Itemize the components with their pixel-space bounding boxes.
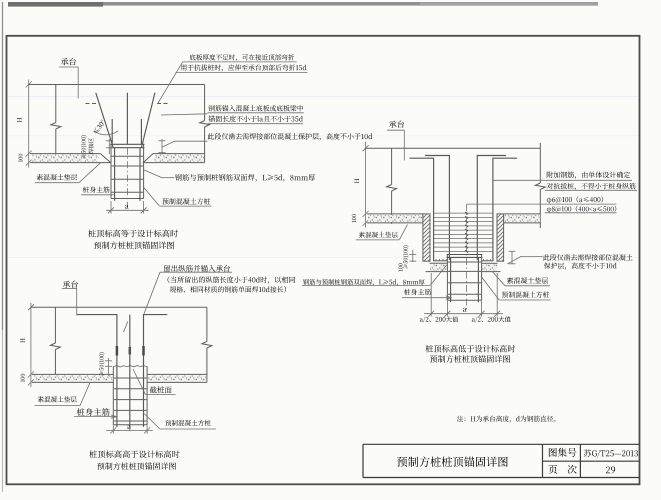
weld zone mini dimension (detail 2) (409, 250, 416, 262)
annotation: 此段仅凿去需焊接部位混凝土 (detail 2) (543, 254, 632, 260)
pile stirrup rungs (detail 3) (114, 378, 147, 421)
pile main bars (detail 2) (451, 257, 479, 302)
rotated dim ≥50(100) (detail 1) (81, 135, 87, 158)
dimension line vertical (detail 3) (28, 303, 34, 387)
annotation: 锚固长度不小于la且不小于35d (208, 115, 302, 121)
precast pile outline (detail 1) (111, 144, 144, 198)
cut surface 截桩面 jagged line (detail 3) (113, 366, 146, 367)
pile cap top line (detail 1) (29, 84, 205, 86)
leader diagonal from top annotation to bar (detail 1) (158, 62, 183, 104)
dimension a below pile (detail 3) (106, 425, 153, 433)
annotation: 附加钢筋，由单体设计确定 (547, 172, 630, 179)
pile cap top line (detail 3) (31, 306, 207, 308)
cushion layer left (detail 1) (32, 155, 99, 162)
dashed bend level right (detail 1) (157, 103, 169, 105)
cushion layer right (detail 3) (148, 375, 206, 381)
承台 label leader (detail 2) (387, 130, 405, 160)
pile top plate band (detail 1) (110, 144, 144, 147)
rotated label 焊接区 (detail 1) (88, 138, 93, 154)
dim label a (detail 1) (125, 205, 129, 209)
dim label H rotated (detail 3) (20, 338, 24, 343)
stirrups of added cage (detail 2) (434, 213, 493, 251)
underline annotation line1 (detail 1) (183, 61, 297, 63)
dim label H rotated (detail 2) (355, 179, 359, 184)
added bar outer-right with hook (detail 2) (493, 158, 517, 261)
section right boundary with break (detail 3) (202, 307, 212, 382)
承台 label leader (detail 1) (59, 67, 79, 99)
scan artifact: left edge line (2, 2, 4, 330)
leader + underline 预制混凝土方桩 (detail 1) (144, 188, 212, 207)
underline 钢筋锚入 line (detail 1) (208, 112, 304, 114)
anchor bar stub right (detail 1) (140, 119, 142, 144)
caption line 2 (detail 3) (97, 462, 176, 469)
label: 预制混凝土方桩 (detail 1) (162, 198, 210, 205)
leader + underline 桩身主筋 (detail 2) (402, 296, 452, 300)
angle label ≤30° (detail 1) (93, 119, 106, 134)
label: 截桩面 (detail 3) (150, 386, 172, 393)
label: 素混凝土垫层 (detail 1) (37, 174, 78, 180)
title block: 图集号 (549, 448, 577, 457)
title block: 苏G/T25—2013 (584, 449, 638, 457)
underline φ8@100 (detail 2) (545, 212, 617, 214)
precast pile outline (detail 2) (447, 255, 481, 301)
anchor bar centre vertical (detail 1) (126, 93, 128, 144)
stirrup hook ticks on centreline (detail 2) (465, 212, 468, 253)
leader + underline 素混凝土垫层 lower (detail 2) (493, 272, 551, 286)
dim label H rotated (detail 1) (17, 118, 21, 123)
leader + underline 素混凝土垫层 upper (detail 2) (356, 225, 408, 240)
note: 注 H为承台高度 d为钢筋直径 (457, 416, 555, 423)
pile cap left edge with break (detail 1) (51, 85, 61, 154)
pile cap top line (detail 2) (366, 147, 541, 149)
leader + underline 预制混凝土方桩 (detail 3) (144, 414, 216, 430)
annotation: 此段仅凿去需焊接部位混凝土保护层，高度不小于10d (208, 133, 373, 140)
weld splice thickening (detail 3) (117, 346, 144, 356)
pile centreline (detail 2) (466, 204, 468, 310)
underline 桩身主筋 (detail 1) (81, 194, 114, 196)
title block: 29 (606, 467, 615, 474)
label: 素混凝土垫层 upper (detail 2) (359, 232, 398, 238)
annotation: φ8@100(400<a≤500) (547, 206, 616, 213)
10d chip-off dimension marker (detail 2) (509, 251, 516, 263)
dimension chain below pile (detail 2) (424, 273, 503, 317)
scan artifact: faint blue streaks (7, 95, 639, 98)
dim label 100 rotated (detail 1) (18, 154, 22, 162)
section right boundary with break (detail 2) (535, 143, 545, 228)
annotation: 留出纵筋并锚入承台 (164, 265, 230, 272)
caption line 2 (detail 2) (430, 355, 510, 363)
cushion layer left (detail 2) (368, 215, 423, 222)
scan artifact: top edge dark band (8, 2, 598, 6)
leader + underline 素混凝土垫层 (detail 3) (35, 383, 91, 406)
10d chip-off dimension marker (detail 1) (159, 139, 166, 154)
weld zone mini dimension (detail 1) (106, 139, 113, 154)
dim label 100 rotated (detail 3) (21, 374, 25, 382)
added bar outer-left with hook (detail 2) (409, 158, 433, 261)
underline annotation line2 (detail 1) (176, 71, 308, 73)
annotation: 钢筋锚入混凝土底板或底板梁中 (208, 105, 303, 111)
caption line 2 (detail 1) (94, 241, 174, 249)
left-out bar left with hook (detail 3) (77, 315, 117, 427)
title block: 预制方桩桩顶锚固详图 (397, 456, 508, 467)
precast pile outline (detail 3) (113, 366, 147, 425)
dim label 100 rotated (detail 2) (352, 214, 356, 222)
leader to 此段 annotation (detail 1) (162, 141, 207, 147)
pile stirrup rungs (detail 2) (448, 262, 481, 294)
caption line 1 (detail 1) (88, 230, 178, 238)
annotation: φ6@100(a≤400) (547, 196, 603, 203)
label: 承台 (detail 2) (389, 120, 404, 127)
anchor bar stub left (detail 1) (111, 119, 113, 144)
label: 桩身主筋 (detail 3) (77, 408, 110, 416)
pile main bars (detail 1) (115, 148, 140, 201)
leader + underline 预制混凝土方桩 (detail 2) (481, 276, 551, 300)
label: 预制混凝土方桩 (detail 2) (502, 291, 550, 297)
pile centreline tail (detail 3) (129, 427, 131, 431)
leader arrow to anchorage text (detail 1) (161, 114, 208, 115)
label: 桩身主筋 (detail 2) (404, 289, 431, 295)
rotated dim ≥50(100) (detail 2) (403, 245, 409, 268)
annotation: 钢筋与预制桩钢筋双面焊 L≥5d 8mm厚 (detail 2) (303, 279, 425, 286)
caption line 1 (detail 2) (426, 345, 516, 353)
annotation: 底板厚度不足时，可在接近顶部弯折 (190, 54, 295, 61)
added bar inner-left with hook (detail 2) (425, 156, 449, 261)
dim label a/2 200大值 right (detail 2) (472, 316, 511, 322)
underline 对抗拔桩 annotation (detail 2) (545, 189, 637, 191)
annotation: 对抗拔桩，不得小于桩身纵筋 (547, 183, 636, 190)
dimension line vertical (detail 1) (26, 80, 32, 168)
pile cap left edge with break (detail 3) (50, 307, 60, 374)
dim label a (detail 2) (463, 308, 467, 312)
leader + underline 留出纵筋并锚入承台 (detail 3) (144, 272, 232, 314)
underline 锚固长度 line (detail 1) (208, 123, 304, 125)
annotation: 规格、相同材质的钢筋单面焊10d接长） (170, 286, 286, 292)
label: 素混凝土垫层 lower (detail 2) (507, 277, 548, 283)
pit floor cushion left (detail 2) (430, 264, 447, 271)
centreline slash mark (detail 3) (124, 322, 128, 333)
label: 承台 (detail 3) (63, 280, 78, 287)
annotation: 钢筋与预制桩钢筋双面焊 L≥5d 8mm厚 (detail 1) (175, 174, 315, 182)
pile stirrup rungs (detail 1) (112, 156, 143, 192)
left-out bar right with hook (detail 3) (144, 315, 168, 427)
dimension line vertical (detail 2) (363, 142, 369, 228)
added bar inner-right with hook (detail 2) (477, 156, 506, 261)
pile top plate band (detail 2) (447, 255, 483, 258)
rotated dim 100 pit (detail 2) (398, 263, 402, 271)
leader to 此段 annotation (detail 2) (508, 256, 543, 263)
annotation: 保护层，高度不小于10d (detail 2) (544, 262, 617, 269)
leader + underline 钢筋与预制桩钢筋双面焊 (detail 2) (302, 265, 447, 286)
annotation: 用于抗拔桩时，应伸至承台顶部后弯折15d (181, 64, 307, 71)
label: 素混凝土垫层 (detail 3) (38, 396, 77, 402)
caption line 1 (detail 3) (89, 450, 179, 458)
承台 label leader (detail 3) (62, 288, 77, 315)
pile centreline (detail 1) (126, 148, 128, 207)
label: 预制混凝土方桩 (detail 3) (165, 420, 211, 426)
section right boundary line (detail 1) (200, 85, 210, 163)
label: 承台 (detail 1) (61, 58, 76, 65)
dim label a/2 200大值 left (detail 2) (420, 316, 458, 322)
dashed bend level left (detail 1) (86, 103, 100, 105)
title block outline (363, 444, 640, 477)
cushion layer left (detail 3) (34, 375, 112, 381)
title block: 页 次 (548, 465, 576, 474)
pit floor cushion right (detail 2) (482, 264, 497, 271)
pile cap left edge with break (detail 2) (387, 148, 397, 224)
pit wall right hatched (detail 2) (493, 207, 508, 274)
underline 桩身主筋 (detail 3) (74, 415, 116, 418)
annotation: （当所留出的纵筋长度小于40d时，以相同 (168, 276, 295, 283)
cushion layer right (detail 2) (504, 215, 540, 222)
left-out bar centre (detail 3) (129, 315, 131, 427)
cushion layer right (detail 1) (155, 155, 205, 162)
label: 桩身主筋 (detail 1) (83, 186, 110, 192)
leader + underline 素混凝土垫层 (detail 1) (35, 163, 101, 183)
anchor bar flared left (detail 1) (96, 93, 113, 148)
leader 钢筋与预制桩 annotation (detail 1) (143, 170, 174, 178)
leader + underline 截桩面 (detail 3) (133, 369, 176, 395)
rotated dim ≥50(100) (detail 3) (99, 352, 105, 375)
weld zone mini dimension (detail 3) (105, 358, 112, 376)
30 degree arc (detail 1) (94, 131, 119, 135)
leader to stirrup spec text (detail 2) (467, 203, 617, 205)
dim label a (detail 3) (127, 425, 131, 429)
pit wall left hatched (detail 2) (419, 207, 434, 274)
anchor bar flared right (detail 1) (142, 93, 155, 148)
leader + underline 附加钢筋 annotation (detail 2) (493, 179, 632, 181)
dimension a below pile (detail 1) (106, 201, 149, 214)
